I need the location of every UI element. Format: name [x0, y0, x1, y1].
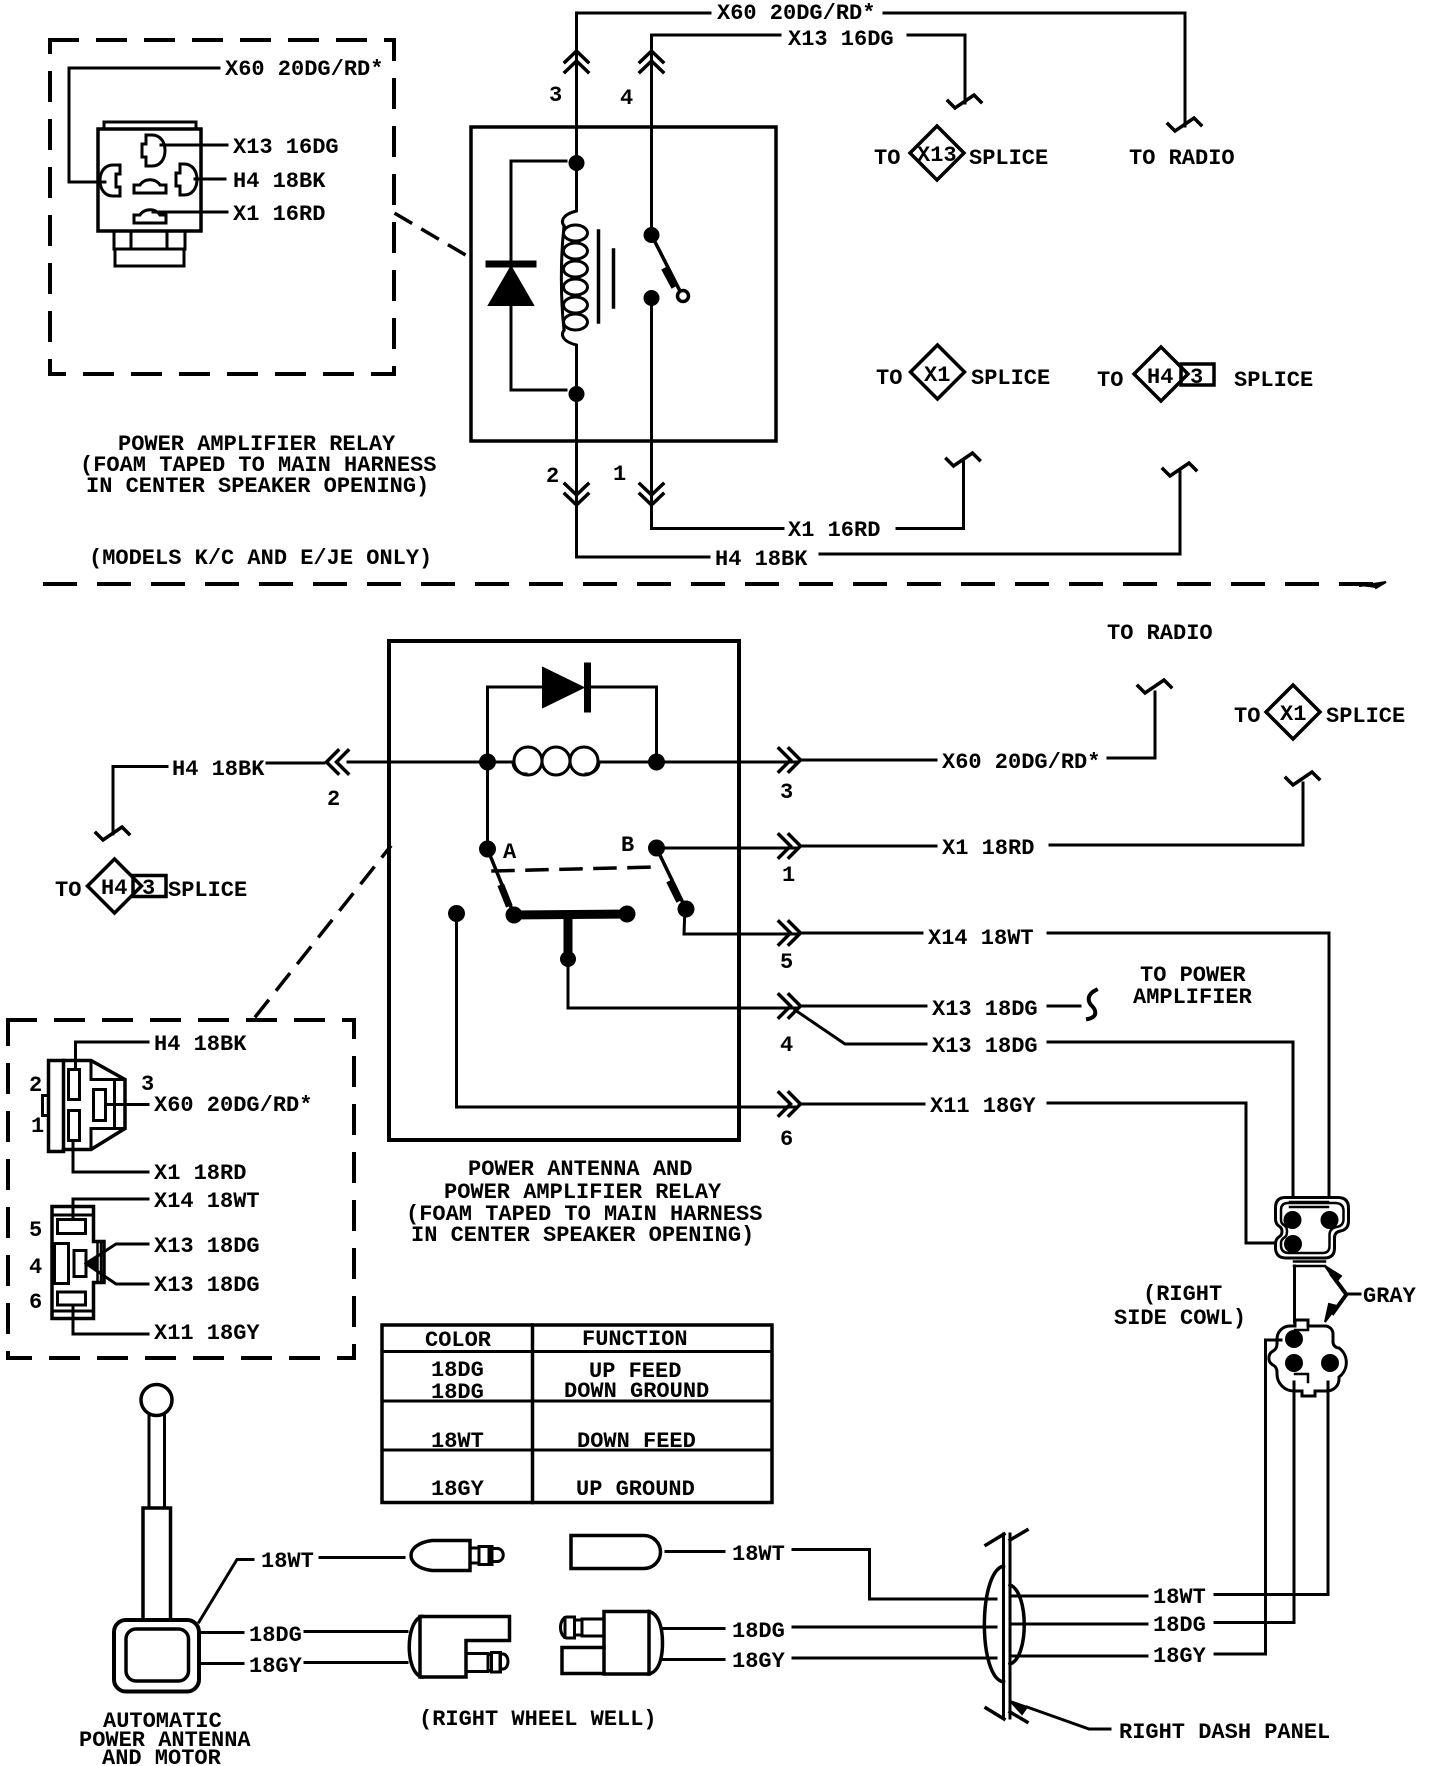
svg-text:X13 18DG: X13 18DG	[932, 1034, 1038, 1059]
svg-text:TO RADIO: TO RADIO	[1129, 146, 1235, 171]
wire pin2 vertical (bottom)	[575, 394, 578, 557]
wire 18GY from cowl lower	[1215, 1340, 1281, 1654]
svg-text:18GY: 18GY	[249, 1654, 303, 1679]
wire X1 16RD run	[652, 527, 784, 530]
connector J1 pin cavity top	[142, 135, 165, 166]
common bar stem	[560, 915, 576, 967]
svg-text:4: 4	[29, 1255, 42, 1280]
connector chevron pin 6 (right)	[779, 1093, 801, 1116]
wire 18DG from motor	[199, 1631, 243, 1634]
SECTION-LOWER	[79, 1198, 1417, 1766]
section separator dashed line	[45, 582, 1375, 586]
caption automatic power antenna	[79, 1709, 251, 1766]
svg-text:2: 2	[327, 787, 340, 812]
bullet connector female	[411, 1541, 503, 1571]
node dot bottom (K1 coil)	[569, 386, 585, 402]
connector chevron pin 2 (down)	[565, 484, 588, 505]
wire X13 leader from J1	[161, 144, 227, 147]
svg-text:3: 3	[1190, 365, 1203, 390]
connector J2 dashed enclosure	[8, 1020, 354, 1358]
svg-text:SPLICE: SPLICE	[168, 878, 247, 903]
splice symbol X1 (bottom)	[1266, 685, 1320, 739]
svg-text:X60 20DG/RD*: X60 20DG/RD*	[225, 57, 383, 82]
wire pin 1 out (X1)	[657, 846, 937, 848]
relay K1 switch blade	[652, 235, 689, 302]
connector J1 body	[98, 122, 201, 266]
svg-text:H4: H4	[1147, 365, 1173, 390]
splice symbol X1 (top)	[911, 345, 965, 399]
wire 18WT grommet to label	[1012, 1595, 1147, 1598]
wheel well connector female	[409, 1617, 509, 1678]
wire X1 18RD to splice	[1050, 783, 1303, 845]
connector J2A pin 2	[69, 1070, 80, 1100]
switch blade A	[488, 849, 514, 912]
svg-text:SPLICE: SPLICE	[1326, 704, 1405, 729]
wire H4 to splice	[820, 472, 1180, 554]
wire X11 18GY to cowl	[1048, 1103, 1274, 1243]
relay K2 diode branch wire	[488, 687, 657, 762]
svg-text:X11 18GY: X11 18GY	[930, 1094, 1036, 1119]
separator end arrow	[1360, 582, 1386, 588]
svg-text:X1: X1	[924, 363, 950, 388]
relay K1 core lines	[599, 231, 614, 322]
connector J2A pin 1	[69, 1111, 80, 1141]
svg-text:TO: TO	[1097, 368, 1123, 393]
wire 18GY (mid)	[663, 1658, 724, 1661]
connector J2A body	[49, 1061, 126, 1152]
wire 18GY grommet to label	[1012, 1655, 1147, 1658]
node dot left (K2 coil)	[479, 754, 496, 771]
connector chevron pin 4 (right)	[779, 995, 801, 1018]
switch blade B	[657, 848, 695, 918]
svg-text:X1 18RD: X1 18RD	[942, 836, 1034, 861]
svg-text:18WT: 18WT	[261, 1549, 314, 1574]
svg-text:SPLICE: SPLICE	[971, 366, 1050, 391]
wire K2 coil to contact A	[486, 762, 489, 849]
wire 18DG mid to grommet	[793, 1626, 996, 1629]
svg-text:1: 1	[782, 863, 795, 888]
cowl lower pin 2	[1285, 1354, 1303, 1372]
connector chevron pin 5 (right)	[779, 922, 801, 945]
cowl lower pin 1	[1285, 1330, 1303, 1348]
relay K2 coil	[488, 747, 657, 775]
wire X13 18DG to cowl	[1048, 1042, 1295, 1322]
wire end hook (to X13 splice)	[948, 95, 981, 108]
node dot top (K1 coil)	[569, 155, 585, 171]
leader RIGHT DASH PANEL	[1010, 1701, 1110, 1729]
svg-text:18DG: 18DG	[732, 1619, 785, 1644]
wire 18DG from cowl lower	[1215, 1382, 1294, 1623]
wire H4 18BK run	[577, 556, 710, 559]
connector J2B body	[52, 1207, 104, 1319]
cowl upper pin 3	[1284, 1235, 1302, 1253]
wire H4 leader (J2A)	[76, 1042, 149, 1070]
contact A dot	[479, 841, 496, 858]
svg-text:UP GROUND: UP GROUND	[576, 1477, 695, 1502]
caption power antenna relay	[406, 1157, 762, 1248]
svg-text:2: 2	[29, 1073, 42, 1098]
svg-text:H4: H4	[101, 876, 127, 901]
contact B dot	[648, 840, 665, 857]
svg-text:X14 18WT: X14 18WT	[154, 1189, 260, 1214]
svg-text:X1 16RD: X1 16RD	[788, 518, 880, 543]
svg-text:GRAY: GRAY	[1363, 1284, 1417, 1309]
svg-text:(RIGHT: (RIGHT	[1143, 1282, 1222, 1307]
connector chevron pin 3 (right)	[779, 749, 801, 772]
dashed leader to relay K2	[256, 847, 390, 1016]
svg-text:AND MOTOR: AND MOTOR	[102, 1746, 222, 1766]
wire end hook (to H4 splice bottom)	[96, 827, 129, 840]
wire end hook (to radio bottom)	[1138, 680, 1171, 693]
wire H4 leader from J1	[195, 178, 225, 181]
svg-text:COLOR: COLOR	[425, 1328, 492, 1353]
cowl upper pin 2	[1321, 1211, 1339, 1229]
diode CR1	[489, 264, 533, 305]
svg-text:POWER ANTENNA AND: POWER ANTENNA AND	[468, 1157, 692, 1182]
wire pin4 vertical (top)	[650, 35, 653, 235]
svg-text:TO: TO	[55, 878, 81, 903]
svg-text:18GY: 18GY	[1153, 1644, 1207, 1669]
svg-text:4: 4	[780, 1033, 793, 1058]
antenna mast	[149, 1415, 165, 1509]
wire X60 to radio (bottom)	[1108, 692, 1155, 758]
svg-text:SPLICE: SPLICE	[1234, 368, 1313, 393]
connector J2A pin 3 cavity	[94, 1090, 106, 1121]
svg-text:2: 2	[546, 464, 559, 489]
svg-text:X13 16DG: X13 16DG	[788, 27, 894, 52]
relay K1 diode branch wire	[511, 161, 566, 390]
svg-text:A: A	[503, 840, 517, 865]
caption power amplifier relay	[80, 432, 436, 499]
svg-text:(RIGHT WHEEL WELL): (RIGHT WHEEL WELL)	[419, 1707, 657, 1732]
svg-text:H4 18BK: H4 18BK	[715, 547, 808, 572]
connector J1 dashed enclosure	[50, 40, 394, 374]
antenna motor body	[114, 1620, 199, 1692]
bullet connector male	[571, 1536, 661, 1569]
svg-text:B: B	[621, 833, 634, 858]
svg-text:X13: X13	[917, 143, 957, 168]
relay K2 box	[389, 641, 739, 1140]
splice symbol X13	[910, 126, 964, 180]
svg-text:H4 18BK: H4 18BK	[172, 757, 265, 782]
cowl upper pin 1	[1284, 1211, 1302, 1229]
svg-text:18GY: 18GY	[732, 1649, 786, 1674]
svg-text:X60 20DG/RD*: X60 20DG/RD*	[942, 750, 1100, 775]
svg-text:4: 4	[620, 86, 633, 111]
wire H4 18BK into relay K2	[113, 762, 488, 767]
svg-text:5: 5	[29, 1218, 42, 1243]
wire X60 out run	[801, 759, 936, 762]
svg-text:3: 3	[780, 780, 793, 805]
connector chevron pin 1 (down)	[640, 484, 663, 505]
connector chevron pin 3 (up)	[565, 51, 588, 72]
diode CR2	[543, 666, 588, 709]
wire pin3 vertical (top)	[575, 13, 578, 156]
connector J1 pin cavity center	[134, 180, 166, 193]
connector J2A left tab	[43, 1096, 49, 1116]
common bar	[506, 906, 636, 924]
svg-text:TO: TO	[876, 366, 902, 391]
svg-text:DOWN GROUND: DOWN GROUND	[564, 1379, 709, 1404]
wire X60 leader from J1	[69, 68, 219, 182]
connector J2B pin 5 cavity	[58, 1220, 86, 1234]
SECTION-TOP	[45, 1, 1386, 588]
table color/function	[382, 1325, 772, 1503]
grommet bulge	[984, 1566, 1024, 1682]
svg-text:18WT: 18WT	[431, 1429, 484, 1454]
svg-text:X1 16RD: X1 16RD	[233, 202, 325, 227]
wire 18DG grommet to label	[1012, 1623, 1147, 1626]
cowl lower pin 3	[1321, 1354, 1339, 1372]
splice symbol H4-3	[1134, 347, 1214, 401]
right dash panel line	[986, 1530, 1027, 1722]
svg-text:X13 16DG: X13 16DG	[233, 135, 339, 160]
connector J1 pin cavity right	[176, 164, 197, 195]
antenna ball	[141, 1385, 172, 1416]
wire X13 to splice	[908, 35, 965, 103]
svg-text:AMPLIFIER: AMPLIFIER	[1133, 985, 1253, 1010]
contact dot pin6 branch	[448, 905, 465, 922]
connector chevron pin 2 (left)	[327, 751, 349, 774]
svg-text:X60 20DG/RD*: X60 20DG/RD*	[717, 1, 875, 26]
svg-text:18DG: 18DG	[431, 1380, 484, 1405]
connector J1 pin cavity left	[100, 165, 120, 196]
dashed leader to relay K1	[396, 214, 469, 257]
wire H4 drop to splice	[112, 767, 115, 835]
relay K1 switch contact bottom	[644, 290, 660, 306]
wire pin 6 out (X11)	[457, 914, 925, 1108]
antenna tube	[143, 1508, 171, 1620]
svg-text:18DG: 18DG	[1153, 1613, 1206, 1638]
svg-text:18GY: 18GY	[431, 1477, 485, 1502]
wire X14 18WT to cowl	[1048, 933, 1329, 1196]
wire end hook (to H4 splice)	[1163, 463, 1196, 476]
wire 18DG to connector	[305, 1630, 407, 1633]
svg-text:H4 18BK: H4 18BK	[154, 1032, 247, 1057]
wire X1 to splice	[897, 462, 964, 529]
svg-text:3: 3	[141, 1072, 154, 1097]
wire end hook (to X1 splice)	[947, 453, 980, 466]
wire 18WT to bullet	[320, 1556, 404, 1559]
svg-text:18WT: 18WT	[1153, 1585, 1206, 1610]
svg-text:TO RADIO: TO RADIO	[1107, 621, 1213, 646]
svg-text:FUNCTION: FUNCTION	[582, 1327, 688, 1352]
connector chevron pin 1 (right)	[779, 835, 801, 858]
wire X13 leader pair (J2B)	[86, 1244, 148, 1284]
svg-text:X11 18GY: X11 18GY	[154, 1321, 260, 1346]
svg-text:X1: X1	[1280, 702, 1306, 727]
wire X13 second branch diagonal	[795, 1010, 926, 1044]
relay K1 box	[471, 127, 776, 441]
leader GRAY arrows	[1325, 1266, 1360, 1322]
connector J1 pin cavity bottom	[134, 210, 166, 223]
wire 18GY mid to grommet	[793, 1657, 996, 1660]
relay K1 coil	[561, 163, 587, 394]
svg-text:(MODELS K/C AND E/JE ONLY): (MODELS K/C AND E/JE ONLY)	[89, 546, 432, 571]
SECTION-BOTTOM	[8, 621, 1405, 1358]
wire 18WT leader from motor	[199, 1560, 253, 1623]
wire pin1 vertical (bottom)	[650, 298, 653, 529]
wire X60 leader (J2A)	[106, 1103, 149, 1106]
svg-text:1: 1	[31, 1114, 44, 1139]
linkage dashed line	[493, 867, 657, 871]
connector J2B pin 6 cavity	[58, 1292, 86, 1305]
svg-text:DOWN FEED: DOWN FEED	[577, 1429, 696, 1454]
wire 18WT from cowl lower	[1215, 1382, 1328, 1595]
node dot right (K2 coil)	[648, 754, 665, 771]
svg-text:X13 18DG: X13 18DG	[154, 1234, 260, 1259]
svg-text:RIGHT DASH PANEL: RIGHT DASH PANEL	[1119, 1720, 1330, 1745]
svg-text:X13 18DG: X13 18DG	[932, 997, 1038, 1022]
connector cowl lower body	[1269, 1320, 1346, 1396]
wire X11 leader (J2B)	[73, 1305, 148, 1334]
connector J2B pin 4 cavity	[55, 1244, 87, 1284]
wire 18GY to connector	[305, 1661, 407, 1664]
svg-text:X14 18WT: X14 18WT	[928, 926, 1034, 951]
svg-text:3: 3	[549, 83, 562, 108]
wire X14 leader (J2B)	[73, 1199, 148, 1220]
wire X60 top run	[577, 12, 711, 15]
svg-text:IN CENTER SPEAKER OPENING): IN CENTER SPEAKER OPENING)	[86, 474, 429, 499]
connector cowl upper body	[1276, 1198, 1349, 1267]
svg-text:X60 20DG/RD*: X60 20DG/RD*	[154, 1093, 312, 1118]
svg-text:6: 6	[29, 1290, 42, 1315]
label (RIGHT SIDE COWL)	[1114, 1282, 1246, 1331]
wheel well connector male	[561, 1612, 663, 1675]
wire X60 to radio	[884, 13, 1185, 126]
wire X13 pigtail	[1048, 1005, 1080, 1008]
svg-text:IN CENTER SPEAKER OPENING): IN CENTER SPEAKER OPENING)	[411, 1223, 754, 1248]
svg-text:X13 18DG: X13 18DG	[154, 1273, 260, 1298]
pigtail squiggle to power amplifier	[1088, 990, 1096, 1019]
wire X13 top run	[652, 34, 781, 37]
wire pin 5 out (X14)	[684, 907, 922, 934]
svg-text:H4 18BK: H4 18BK	[233, 169, 326, 194]
wire X1 leader from J1	[153, 211, 227, 214]
connector chevron pin 4 (up)	[640, 51, 663, 72]
svg-text:TO: TO	[1234, 704, 1260, 729]
wire 18WT mid to grommet	[793, 1550, 996, 1600]
relay K1 switch contact top	[644, 227, 660, 243]
svg-text:6: 6	[780, 1127, 793, 1152]
svg-text:TO: TO	[874, 146, 900, 171]
wire end hook (to radio top)	[1168, 118, 1201, 131]
wire pin 4 out (X13)	[568, 959, 926, 1008]
svg-text:3: 3	[142, 876, 155, 901]
svg-text:X1 18RD: X1 18RD	[154, 1161, 246, 1186]
wire pin 3 out (X60)	[657, 761, 798, 764]
wire 18DG (mid)	[663, 1627, 724, 1630]
wire end hook (to X1 splice bottom)	[1286, 772, 1319, 785]
splice symbol H4-3 (bottom)	[88, 859, 167, 913]
svg-text:18DG: 18DG	[249, 1623, 302, 1648]
svg-text:1: 1	[613, 462, 626, 487]
wire 18WT (mid)	[666, 1550, 724, 1553]
svg-text:5: 5	[780, 950, 793, 975]
svg-text:SIDE COWL): SIDE COWL)	[1114, 1306, 1246, 1331]
wire 18GY from motor	[199, 1662, 243, 1665]
wire X1 leader (J2A)	[73, 1141, 148, 1173]
svg-text:18WT: 18WT	[732, 1542, 785, 1567]
svg-text:SPLICE: SPLICE	[969, 146, 1048, 171]
